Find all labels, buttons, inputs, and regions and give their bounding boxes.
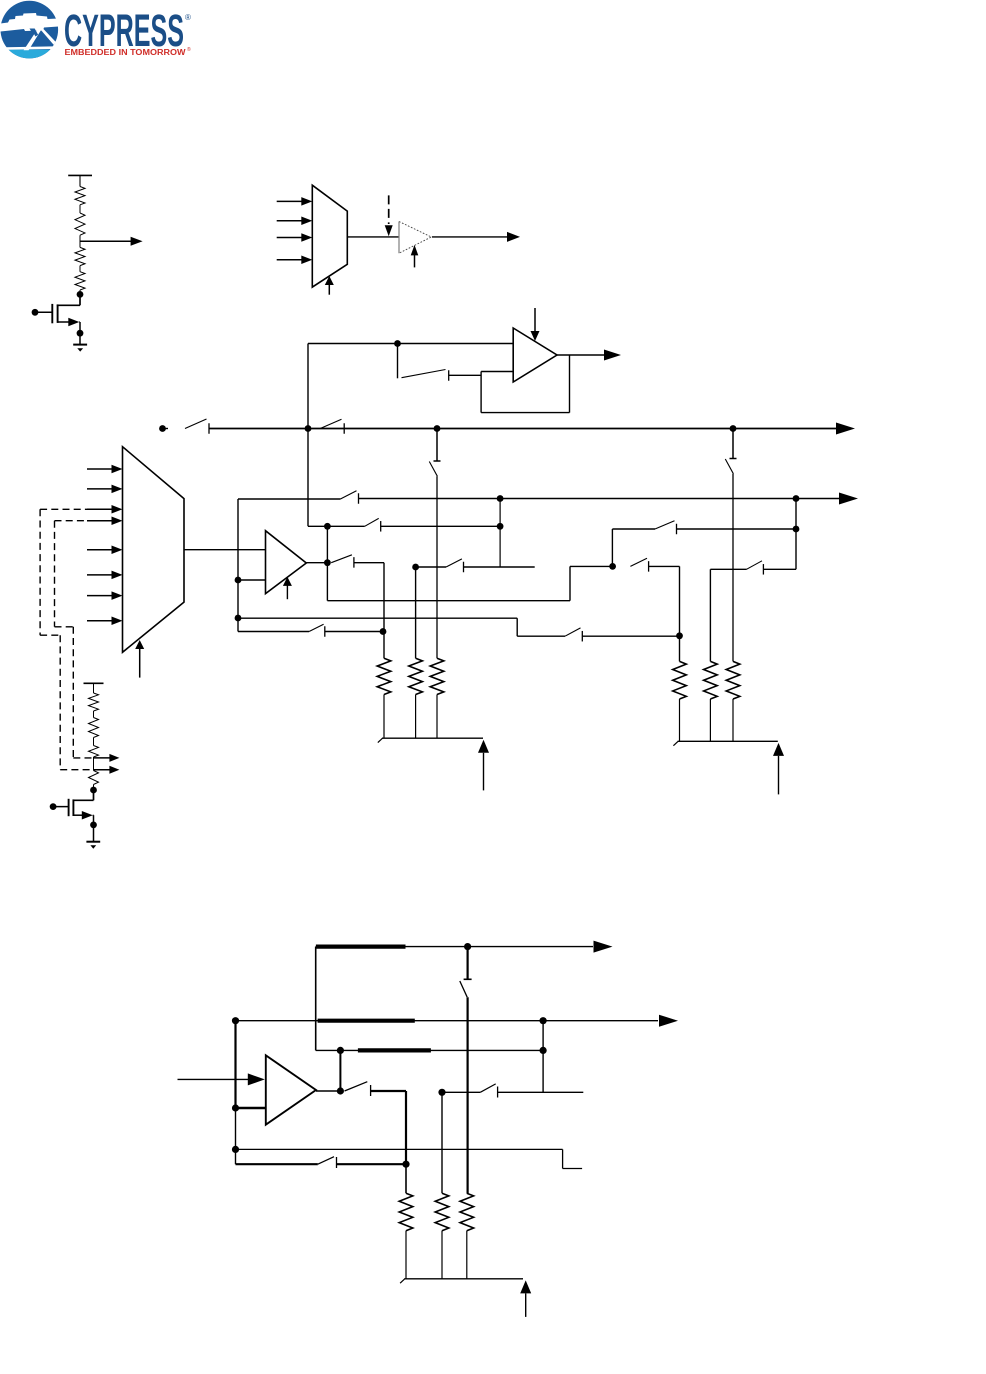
node minus input (fig5) (232, 1104, 239, 1111)
node x235 line-thin (232, 1146, 239, 1153)
wire long line H (238, 617, 517, 619)
wire R3c bottom lead (732, 699, 734, 741)
svg-text:EMBEDDED IN TOMORROW: EMBEDDED IN TOMORROW (65, 47, 187, 57)
wire G to blade (416, 566, 447, 568)
op-amp U2 triangle (513, 328, 557, 382)
bus switch SW2 blade (163, 428, 169, 430)
wire x570 riser (569, 566, 571, 600)
op-amp U2 top control arrow (534, 308, 536, 332)
switch SWM blade (318, 1157, 334, 1165)
node E (609, 563, 616, 570)
node G (412, 564, 419, 571)
mux M2 input arrow 2 (87, 488, 114, 490)
transistor Q2 source lead with arrow (74, 814, 83, 816)
wire switch line y1164 (bold) (236, 1163, 318, 1165)
output arrow (fig2) (432, 236, 507, 238)
wire line2 (fig5) (236, 1020, 659, 1022)
ground (fig4b) (93, 825, 95, 841)
wire SWM right (bold) (337, 1163, 407, 1165)
wire feedback bottom (481, 412, 569, 414)
node H end x679 (676, 632, 683, 639)
tap2 arrow (fig4b) (94, 769, 111, 771)
buffer U1 triangle (398, 222, 400, 254)
wire mux M1 output (347, 236, 398, 238)
wire SWV2 lower to resistor (732, 474, 734, 662)
wire R1d to drain node (79, 290, 81, 294)
switch SWV1 blade (429, 462, 437, 477)
mux M1 input arrow 2 (277, 220, 303, 222)
switch SWL blade (480, 1084, 495, 1092)
bus node A (305, 425, 312, 432)
wire G right segment (464, 566, 535, 568)
wire U3 output (306, 562, 327, 564)
wire R4b-R4c (93, 738, 95, 746)
vertical switch SWV2 upper (732, 429, 734, 459)
transistor Q2 gate bar (68, 799, 70, 816)
mux M1 select arrow (328, 284, 330, 295)
wire vertical x679 to resistor (679, 566, 681, 661)
rail reference arrow (left group) (478, 740, 489, 753)
wire SWout to vertical (354, 562, 384, 564)
wire op-amp U2 + input (308, 343, 513, 345)
node line1 (464, 943, 471, 950)
transistor Q1 gate bar (51, 304, 53, 323)
wire U3 - input (238, 579, 266, 581)
wire vertical x796 (795, 499, 797, 570)
resistor R3c (726, 661, 740, 699)
switch SWout blade (331, 555, 352, 563)
wire SWJ lower to resistor (bold) (467, 997, 469, 1193)
wire line B left corner (308, 525, 365, 527)
wire U2 inverting drop (397, 344, 399, 379)
node line3 mid (337, 1047, 344, 1054)
node source (fig4b) (90, 822, 97, 829)
wire corner to x570 (327, 600, 570, 602)
wire line A left segment (238, 498, 340, 500)
wire R2c bottom lead (436, 695, 438, 739)
wire SWL left leg (442, 1091, 480, 1093)
wire rail to resistor (79, 175, 81, 186)
line1 output arrow (594, 941, 613, 953)
Cypress logo white tree trunk (24, 28, 43, 50)
transistor Q1 gate lead (32, 309, 39, 316)
wire SWK to corner (bold) (371, 1090, 406, 1092)
node lineA-x796 (793, 495, 800, 502)
transistor Q2 channel bracket (72, 799, 74, 816)
wire R3a bottom lead (679, 699, 681, 741)
wire line3 (fig5) (316, 1049, 543, 1051)
switch SW1 contact (448, 370, 450, 381)
wire I to node x383 (325, 631, 383, 633)
wire left vertical x315 (315, 947, 317, 1051)
mux M2 input arrow 5 (87, 549, 114, 551)
wire R1b-tap (79, 235, 81, 247)
tap1 arrow (fig4b) (94, 757, 111, 759)
wire drain lead Q2 (93, 790, 95, 800)
wire rail stem (93, 683, 95, 693)
bus switch SW3 blade (320, 419, 341, 428)
mux M1 input arrow 3 (277, 237, 303, 239)
wire vertical x384 to resistor (383, 563, 385, 659)
bus output arrow (836, 423, 855, 435)
rail reference arrow (right group) (773, 743, 784, 756)
Cypress logo white band (0, 13, 58, 32)
wire tap region (93, 757, 95, 771)
resistor R1b (75, 213, 85, 235)
wire switch line I (238, 631, 309, 633)
wire R3b bottom lead (709, 699, 711, 741)
output arrow (fig3) (557, 354, 604, 356)
bus node B (434, 425, 441, 432)
bus node C (730, 425, 737, 432)
Cypress logo small navy glyph (29, 29, 38, 37)
wire drain lead Q1 (79, 294, 81, 305)
line A output arrow (839, 493, 858, 505)
node lineD end (793, 526, 800, 533)
node lineB end (497, 523, 504, 530)
wire U4 output (316, 1090, 340, 1092)
wire U4 - input (bold) (236, 1107, 266, 1109)
node lineA-x500 (497, 495, 504, 502)
mux M2 input arrow 6 (87, 574, 114, 576)
tap output arrow (fig1) (80, 240, 131, 242)
op-amp U4 + input arrow (178, 1078, 249, 1080)
wire bold vertical x406 (405, 1091, 407, 1164)
resistor R2a (377, 658, 391, 694)
wire SWV1 lower to resistor (436, 476, 438, 658)
wire SWL right leg (498, 1091, 584, 1093)
wire vertical x543 (542, 1021, 544, 1093)
right resistor group bottom rail (678, 740, 778, 742)
mux M2 input arrow 7 (87, 595, 114, 597)
switch SWJ blade (460, 981, 467, 997)
dashed net from tap2 to M2 input 3 (40, 508, 87, 510)
resistor R4a (89, 693, 99, 711)
mux M2 input arrow 8 (87, 620, 114, 622)
node line3 end (540, 1047, 547, 1054)
Cypress logo light blue bottom (9, 50, 50, 59)
resistor R2c (430, 658, 444, 694)
dashed net from tap1 to M2 input 4 (55, 520, 88, 522)
wire R5a bottom lead (405, 1231, 407, 1279)
vertical switch SWJ upper (467, 947, 469, 980)
dashed control arrow into buffer input (388, 195, 390, 224)
wire x406 to resistor (405, 1164, 407, 1193)
node drain (fig1) (77, 291, 84, 298)
op-amp U3 triangle (266, 531, 307, 594)
vertical switch SWV1 upper (436, 429, 438, 462)
node line2 left (232, 1017, 239, 1024)
node V1-H (235, 615, 242, 622)
wire vertical x710 to resistor (709, 569, 711, 661)
wire gray drop x500 (499, 499, 501, 567)
analog bus start node (159, 425, 166, 432)
resistor R1c (75, 247, 85, 265)
node line2 right (540, 1017, 547, 1024)
analog bus wire (209, 428, 836, 430)
node U3 output (324, 559, 331, 566)
wire feedback right vertical (569, 355, 571, 413)
wire H to node x679 (582, 635, 679, 637)
svg-text:®: ® (185, 13, 191, 22)
wire E to corner x679 (649, 565, 680, 567)
resistor R5b (435, 1193, 449, 1231)
left vertical net V1 (237, 499, 239, 632)
mux M1 input arrow 1 (277, 200, 303, 202)
wire R5b bottom lead (441, 1231, 443, 1279)
Cypress logo white gap above light blue (6, 46, 53, 49)
node SWL left (438, 1089, 445, 1096)
wire vertical x235 lower (235, 1108, 237, 1164)
switch SWD blade (655, 521, 675, 529)
resistor R1d (75, 272, 85, 290)
node lineB-opamp branch (324, 523, 331, 530)
switch SWB blade (365, 518, 379, 526)
switch SWV2 blade (725, 459, 733, 474)
wire U2 - input (481, 371, 513, 373)
wire R1a-R1b (79, 205, 81, 213)
op-amp U3 enable arrow (286, 585, 288, 599)
wire line A to output arrow (359, 498, 840, 500)
node source (fig1) (77, 330, 84, 337)
wire switch F right leg (763, 568, 796, 570)
svg-text:®: ® (187, 46, 191, 53)
node U2 + input branch (394, 340, 401, 347)
Cypress logo white branch (40, 29, 56, 45)
wire bold vertical x235 (line2 to - input) (234, 1021, 236, 1108)
node V1-minus (235, 577, 242, 584)
wire line1 (fig5) (316, 946, 468, 948)
buffer U1 enable arrow (414, 255, 416, 268)
node U4 output (337, 1087, 344, 1094)
wire SW1 to feedback node (449, 374, 481, 376)
resistor R2b (409, 658, 423, 694)
left resistor group bottom rail (382, 737, 483, 739)
thick segment line3 (358, 1048, 431, 1052)
wire bold vertical x340 (339, 1050, 341, 1091)
line2 output arrow (659, 1015, 678, 1027)
wire line B to node (381, 525, 500, 527)
switch SWG blade (446, 559, 462, 567)
mux M1 input arrow 4 (277, 259, 303, 261)
switch SWA blade (340, 491, 356, 499)
switch SWK blade (345, 1082, 368, 1091)
resistor R5a (399, 1193, 413, 1231)
wire R2b bottom lead (415, 695, 417, 739)
resistor R4d (89, 771, 99, 785)
resistor R1a (75, 187, 85, 205)
resistor R3b (704, 661, 718, 699)
ground (fig1) (79, 333, 81, 344)
node I end x383 (380, 628, 387, 635)
thick segment line1 (316, 944, 406, 948)
mux M2 input arrow 4 (87, 520, 114, 522)
transistor Q1 source lead with arrow (58, 321, 69, 323)
node x406 switch line (402, 1161, 409, 1168)
thick segment line2 (318, 1019, 415, 1023)
switch SWE blade (630, 558, 647, 566)
node drain (fig4b) (90, 787, 97, 794)
mux M2 (8-input trapezoid) (123, 447, 185, 653)
resistor R4b (89, 718, 99, 738)
wire x570 to switch E dot (570, 565, 613, 567)
fig5 resistor bottom rail (404, 1278, 523, 1280)
wire R5c bottom lead (466, 1231, 468, 1279)
switch SWF blade (747, 561, 763, 570)
wire vertical to bus and below (307, 344, 309, 527)
Cypress logo circle (navy globe) (1, 1, 59, 59)
mux M2 select arrow (139, 649, 141, 678)
switch SWI blade (309, 624, 324, 631)
rail reference arrow (fig5) (520, 1280, 531, 1293)
mux M2 input arrow 3 (87, 508, 114, 510)
wire mux M2 output to op-amp U3 (184, 549, 266, 551)
wire R1c-R1d (79, 266, 81, 272)
wire line D corner (611, 529, 613, 566)
resistor R3a (673, 661, 687, 699)
wire D to node x796 (677, 528, 797, 530)
wire F left leg (710, 568, 746, 570)
power rail bar (fig1 ladder top) (68, 174, 92, 176)
resistor R4c (89, 746, 99, 758)
switch SW1 blade (402, 370, 446, 378)
mux M2 input arrow 1 (87, 468, 114, 470)
wire feedback left vertical (480, 372, 482, 413)
resistor R5c (460, 1193, 474, 1231)
wire R2a bottom lead (383, 695, 385, 739)
wire vertical x442 to resistor (441, 1092, 443, 1193)
op-amp U4 triangle (266, 1055, 316, 1124)
switch SWH blade (565, 628, 581, 636)
transistor Q1 channel bracket (57, 304, 59, 323)
power rail bar (fig4b ladder top) (84, 682, 104, 684)
wire R4a-R4b (93, 711, 95, 718)
transistor Q2 gate lead (50, 803, 57, 810)
wire line1 to arrow (468, 946, 593, 948)
vertical x327 to corner (326, 526, 328, 600)
mux M1 (4-input trapezoid) (312, 185, 347, 287)
wire vertical x415 to resistor (415, 567, 417, 658)
wire thin line y1149 (236, 1148, 563, 1150)
wire R4d to drain node (93, 785, 95, 791)
